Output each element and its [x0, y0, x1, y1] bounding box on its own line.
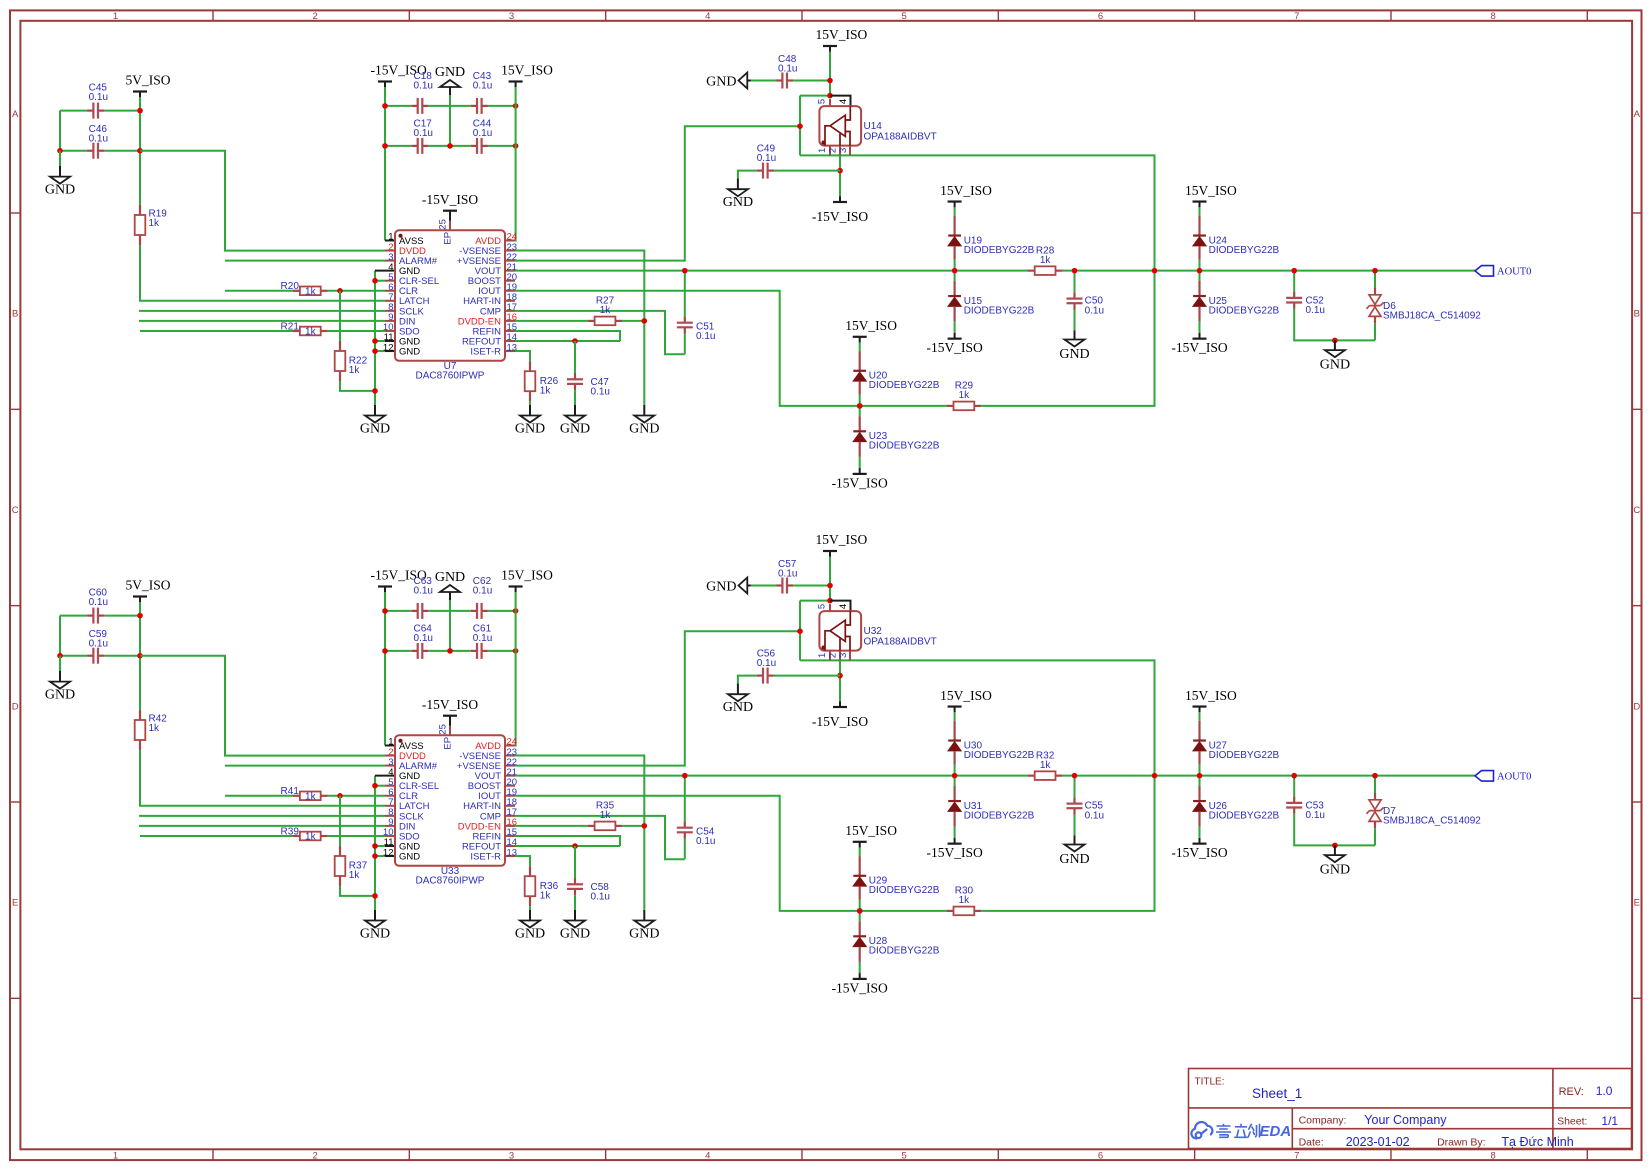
junction	[447, 648, 453, 654]
wire	[374, 776, 376, 910]
junction	[372, 783, 378, 789]
wire	[829, 52, 831, 96]
svg-text:0.1u: 0.1u	[89, 134, 108, 145]
svg-text:0.1u: 0.1u	[89, 597, 108, 608]
svg-text:GND: GND	[706, 74, 736, 89]
junction	[372, 893, 378, 899]
pin 21 VOUT	[505, 775, 515, 777]
svg-text:0.1u: 0.1u	[778, 63, 797, 74]
svg-text:3: 3	[838, 653, 849, 658]
svg-text:0.1u: 0.1u	[1306, 305, 1325, 316]
svg-text:0.1u: 0.1u	[473, 128, 492, 139]
op-amp U32 OPA188AIDBVT	[829, 604, 831, 611]
pin 3 ALARM#	[385, 260, 395, 262]
svg-text:DIODEBYG22B: DIODEBYG22B	[869, 380, 940, 391]
wire	[515, 311, 685, 354]
pin 19 IOUT	[505, 795, 515, 797]
svg-text:1k: 1k	[305, 832, 317, 843]
op-amp U14 OPA188AIDBVT	[829, 99, 831, 106]
wire	[449, 95, 451, 146]
junction	[827, 583, 833, 589]
junction	[513, 143, 519, 149]
svg-text:5: 5	[817, 604, 828, 609]
wire	[774, 170, 840, 172]
wire	[515, 291, 947, 406]
svg-text:25: 25	[437, 219, 448, 230]
svg-text:Sheet_1: Sheet_1	[1252, 1086, 1302, 1101]
wire	[800, 154, 862, 156]
capacitor C52	[1293, 271, 1295, 292]
wire	[515, 756, 644, 910]
zone tick	[1586, 10, 1588, 20]
junction	[1372, 773, 1378, 779]
TVS diode D7 SMBJ18CA	[1374, 776, 1376, 793]
svg-text:0.1u: 0.1u	[473, 80, 492, 91]
power -15V_ISO opamp	[833, 201, 847, 203]
wire	[384, 592, 386, 745]
zone tick	[1390, 10, 1392, 20]
wire	[515, 340, 620, 342]
svg-text:0.1u: 0.1u	[757, 658, 776, 669]
svg-text:GND: GND	[515, 422, 545, 437]
resistor R39	[293, 835, 300, 837]
zone tick	[997, 10, 999, 20]
wire	[139, 825, 385, 827]
svg-text:Sheet:: Sheet:	[1557, 1116, 1587, 1128]
junction	[137, 148, 143, 154]
svg-text:15V_ISO: 15V_ISO	[501, 63, 553, 78]
wire	[385, 105, 411, 107]
pin 7 LATCH	[385, 805, 395, 807]
pin 20 BOOST	[505, 785, 515, 787]
svg-text:1k: 1k	[959, 390, 971, 401]
zone tick	[10, 212, 20, 214]
pin 23 -VSENSE	[505, 250, 515, 252]
ground	[737, 684, 739, 695]
junction	[857, 403, 863, 409]
svg-text:GND: GND	[629, 422, 659, 437]
diode U29	[859, 848, 861, 857]
pin 5 CLR-SEL	[385, 280, 395, 282]
diode U25	[1199, 271, 1201, 281]
wire	[139, 602, 141, 710]
svg-text:1k: 1k	[305, 327, 317, 338]
junction	[827, 93, 833, 99]
svg-text:U14: U14	[864, 121, 883, 132]
capacitor C51	[684, 271, 686, 317]
svg-text:0.1u: 0.1u	[1306, 810, 1325, 821]
svg-text:C: C	[12, 505, 19, 516]
svg-text:-15V_ISO: -15V_ISO	[422, 697, 478, 712]
power -15V_ISO EP	[443, 210, 457, 212]
wire	[385, 845, 395, 847]
pin 2 DVDD	[385, 755, 395, 757]
junction	[382, 103, 388, 109]
pin 14 REFOUT	[505, 340, 515, 342]
junction	[1291, 268, 1297, 274]
wire	[515, 270, 1028, 272]
svg-text:REV:: REV:	[1559, 1086, 1584, 1098]
power 15V_ISO U30	[948, 705, 962, 707]
wire	[800, 659, 862, 661]
svg-text:0.1u: 0.1u	[414, 633, 433, 644]
svg-text:15V_ISO: 15V_ISO	[940, 183, 992, 198]
svg-text:GND: GND	[515, 927, 545, 942]
pin 7 LATCH	[385, 300, 395, 302]
wire	[429, 145, 471, 147]
wire	[385, 145, 411, 147]
wire	[488, 145, 516, 147]
svg-text:1k: 1k	[540, 891, 552, 902]
svg-text:1k: 1k	[1040, 255, 1052, 266]
wire	[139, 815, 385, 817]
svg-text:1k: 1k	[305, 286, 317, 297]
power -15V_ISO U26	[1193, 843, 1207, 845]
wire	[515, 631, 800, 765]
wire	[385, 350, 395, 352]
resistor R32	[1028, 775, 1035, 777]
junction	[337, 793, 343, 799]
wire	[488, 650, 516, 652]
svg-text:1k: 1k	[149, 218, 161, 229]
svg-text:DIODEBYG22B: DIODEBYG22B	[1209, 245, 1280, 256]
power 15V_ISO U27	[1193, 705, 1207, 707]
power 5V_ISO	[133, 90, 147, 92]
junction	[1332, 843, 1338, 849]
wire	[622, 825, 644, 827]
pin 16 DVDD-EN	[505, 320, 515, 322]
svg-text:-15V_ISO: -15V_ISO	[812, 714, 868, 729]
wire	[59, 111, 61, 151]
ground	[643, 405, 645, 416]
svg-text:GND: GND	[399, 851, 420, 862]
wire	[340, 886, 375, 896]
svg-text:R39: R39	[281, 826, 300, 837]
power 15V_ISO U19	[948, 200, 962, 202]
svg-text:TITLE:: TITLE:	[1195, 1077, 1225, 1088]
junction	[447, 143, 453, 149]
power -15V_ISO U25	[1193, 338, 1207, 340]
wire	[385, 340, 395, 342]
svg-text:GND: GND	[723, 195, 753, 210]
svg-text:6: 6	[1098, 11, 1103, 22]
svg-text:GND: GND	[560, 927, 590, 942]
pin 13 ISET-R	[505, 350, 515, 352]
svg-text:0.1u: 0.1u	[591, 387, 610, 398]
svg-text:4: 4	[838, 99, 849, 104]
svg-text:GND: GND	[360, 927, 390, 942]
resistor R20	[293, 290, 300, 292]
wire	[328, 330, 385, 332]
pin 24 AVDD	[505, 745, 515, 747]
power -15V_ISO	[378, 80, 392, 82]
wire	[60, 655, 87, 657]
svg-text:DAC8760IPWP: DAC8760IPWP	[416, 371, 485, 382]
svg-text:1: 1	[817, 148, 828, 153]
ground	[374, 405, 376, 416]
pin 9 DIN	[385, 320, 395, 322]
svg-text:SMBJ18CA_C514092: SMBJ18CA_C514092	[1383, 815, 1481, 826]
svg-text:GND: GND	[629, 927, 659, 942]
wire	[340, 381, 375, 391]
diode U20	[859, 343, 861, 352]
wire	[339, 796, 341, 846]
pin 5 CLR-SEL	[385, 785, 395, 787]
svg-text:DIODEBYG22B: DIODEBYG22B	[1209, 750, 1280, 761]
wire	[375, 270, 395, 272]
svg-text:GND: GND	[399, 346, 420, 357]
svg-text:Drawn By:: Drawn By:	[1437, 1137, 1485, 1149]
capacitor C43	[471, 105, 477, 107]
wire	[139, 97, 141, 205]
svg-text:0.1u: 0.1u	[1085, 810, 1104, 821]
svg-text:GND: GND	[1320, 358, 1350, 373]
pin 9 DIN	[385, 825, 395, 827]
svg-text:2: 2	[313, 11, 318, 22]
svg-text:A: A	[12, 109, 19, 120]
svg-text:R21: R21	[281, 321, 300, 332]
svg-text:DIODEBYG22B: DIODEBYG22B	[869, 946, 940, 957]
wire	[225, 260, 385, 262]
diode U23	[859, 406, 861, 416]
svg-text:5: 5	[817, 99, 828, 104]
zone tick	[10, 997, 20, 999]
pin 17 CMP	[505, 815, 515, 817]
resistor R19	[139, 205, 141, 215]
svg-text:4: 4	[838, 604, 849, 609]
pin 10 SDO	[385, 330, 395, 332]
svg-text:GND: GND	[435, 65, 465, 80]
pin 24 AVDD	[505, 240, 515, 242]
junction	[827, 598, 833, 604]
junction	[382, 143, 388, 149]
junction	[1152, 268, 1158, 274]
wire	[104, 655, 140, 657]
wire	[59, 616, 61, 656]
op IC U7 DAC8760IPWP	[395, 230, 505, 360]
svg-text:-15V_ISO: -15V_ISO	[422, 192, 478, 207]
junction	[837, 168, 843, 174]
wire	[529, 906, 531, 910]
wire	[225, 795, 293, 797]
wire	[225, 765, 385, 767]
wire	[799, 601, 801, 661]
wire	[505, 592, 516, 745]
svg-text:0.1u: 0.1u	[473, 633, 492, 644]
svg-text:DIODEBYG22B: DIODEBYG22B	[1209, 810, 1280, 821]
capacitor C53	[1293, 776, 1295, 797]
pin 23 -VSENSE	[505, 755, 515, 757]
wire	[328, 290, 385, 292]
junction	[137, 613, 143, 619]
wire	[862, 155, 1155, 406]
svg-text:1k: 1k	[349, 365, 361, 376]
wire	[515, 351, 530, 361]
wire	[140, 151, 385, 251]
ground	[1334, 845, 1336, 855]
capacitor C61	[471, 650, 477, 652]
capacitor C60	[87, 614, 93, 616]
wire	[515, 320, 588, 322]
wire	[328, 795, 385, 797]
wire	[515, 251, 644, 405]
wire	[799, 96, 801, 156]
wire	[375, 775, 395, 777]
pin 16 DVDD-EN	[505, 825, 515, 827]
wire	[385, 745, 395, 747]
resistor R37	[339, 846, 341, 856]
power 15V_ISO opamp	[823, 550, 837, 552]
diode U31	[954, 776, 956, 786]
svg-text:3: 3	[838, 148, 849, 153]
junction	[137, 653, 143, 659]
wire	[140, 656, 385, 756]
svg-text:D: D	[1633, 701, 1640, 712]
capacitor C44	[471, 145, 477, 147]
svg-text:1k: 1k	[149, 723, 161, 734]
net flag AOUT0	[1475, 771, 1494, 782]
capacitor C55	[1074, 776, 1076, 798]
wire	[515, 845, 620, 847]
svg-text:7: 7	[1294, 1151, 1299, 1162]
capacitor C48	[776, 79, 782, 81]
capacitor C50	[1074, 271, 1076, 293]
svg-text:25: 25	[437, 724, 448, 735]
pin 25 EP	[449, 716, 451, 726]
svg-text:DAC8760IPWP: DAC8760IPWP	[416, 876, 485, 887]
pin 6 CLR	[385, 290, 395, 292]
svg-text:0.1u: 0.1u	[414, 128, 433, 139]
wire	[774, 675, 840, 677]
diode U24	[1199, 207, 1201, 216]
power -15V_ISO opamp	[833, 706, 847, 708]
ground	[59, 151, 61, 166]
svg-text:2: 2	[828, 148, 839, 153]
svg-text:DIODEBYG22B: DIODEBYG22B	[964, 750, 1035, 761]
svg-text:-15V_ISO: -15V_ISO	[1171, 340, 1227, 355]
wire	[862, 660, 1155, 911]
junction	[837, 673, 843, 679]
svg-text:A: A	[1634, 109, 1641, 120]
capacitor C47	[574, 341, 576, 373]
junction	[952, 773, 958, 779]
wire	[139, 310, 385, 312]
ground	[529, 910, 531, 921]
wire	[488, 105, 516, 107]
junction	[1197, 773, 1203, 779]
svg-text:ISET-R: ISET-R	[470, 851, 501, 862]
ground	[1334, 340, 1336, 350]
wire	[751, 80, 776, 82]
power -15V_ISO U15	[948, 338, 962, 340]
wire	[60, 150, 87, 152]
wire	[515, 126, 800, 260]
resistor R41	[293, 795, 300, 797]
svg-text:1: 1	[113, 1151, 118, 1162]
zone tick	[10, 801, 20, 803]
svg-text:E: E	[12, 898, 18, 909]
svg-text:EP: EP	[442, 737, 453, 750]
junction	[572, 843, 578, 849]
wire	[385, 650, 411, 652]
power 15V_ISO U24	[1193, 200, 1207, 202]
svg-text:5V_ISO: 5V_ISO	[126, 73, 171, 88]
svg-text:B: B	[1634, 309, 1640, 320]
svg-text:GND: GND	[706, 579, 736, 594]
svg-text:3: 3	[509, 1151, 514, 1162]
pin 20 BOOST	[505, 280, 515, 282]
svg-text:Company:: Company:	[1299, 1115, 1347, 1127]
power -15V_ISO EP	[443, 715, 457, 717]
zone tick	[801, 10, 803, 20]
junction	[372, 348, 378, 354]
svg-text:6: 6	[1098, 1151, 1103, 1162]
svg-text:8: 8	[1491, 11, 1496, 22]
ground	[643, 910, 645, 921]
power -15V_ISO U23	[853, 473, 867, 475]
junction	[372, 843, 378, 849]
ground	[59, 656, 61, 671]
resistor R42	[139, 710, 141, 720]
junction	[372, 853, 378, 859]
wire	[830, 96, 851, 107]
svg-text:15V_ISO: 15V_ISO	[845, 823, 897, 838]
capacitor C17	[411, 145, 417, 147]
svg-text:0.1u: 0.1u	[473, 585, 492, 596]
power 15V_ISO U20	[853, 336, 867, 338]
capacitor C18	[411, 105, 417, 107]
ground	[529, 405, 531, 416]
svg-text:2: 2	[828, 653, 839, 658]
junction	[513, 608, 519, 614]
svg-text:-15V_ISO: -15V_ISO	[832, 980, 888, 995]
wire	[793, 585, 830, 587]
svg-text:1k: 1k	[600, 305, 612, 316]
zone tick	[1194, 10, 1196, 20]
svg-text:7: 7	[1294, 11, 1299, 22]
svg-text:ISET-R: ISET-R	[470, 346, 501, 357]
zone tick	[10, 408, 20, 410]
svg-text:GND: GND	[45, 183, 75, 198]
svg-text:2: 2	[313, 1151, 318, 1162]
wire	[738, 676, 757, 684]
wire	[505, 87, 516, 240]
svg-text:AOUT0: AOUT0	[1497, 772, 1531, 783]
wire	[793, 80, 830, 82]
svg-text:12: 12	[383, 847, 394, 858]
title block	[1189, 1069, 1632, 1149]
junction	[513, 103, 519, 109]
svg-text:1k: 1k	[1040, 760, 1052, 771]
power 5V_ISO	[133, 595, 147, 597]
junction	[1197, 268, 1203, 274]
wire	[515, 856, 530, 866]
junction	[572, 338, 578, 344]
zone tick	[10, 605, 20, 607]
diode U30	[954, 712, 956, 721]
svg-text:GND: GND	[435, 570, 465, 585]
junction	[382, 648, 388, 654]
svg-text:DIODEBYG22B: DIODEBYG22B	[964, 305, 1035, 316]
svg-text:GND: GND	[560, 422, 590, 437]
pin 8 SCLK	[385, 815, 395, 817]
svg-text:1k: 1k	[349, 870, 361, 881]
junction	[857, 908, 863, 914]
junction	[1072, 268, 1078, 274]
junction	[1332, 338, 1338, 344]
junction	[57, 148, 63, 154]
pin 10 SDO	[385, 835, 395, 837]
